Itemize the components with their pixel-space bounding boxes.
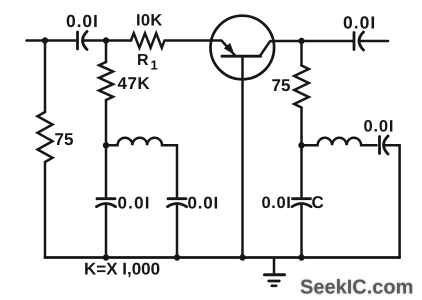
inductor L1 — [106, 138, 177, 146]
wire junction B down — [105, 41, 108, 63]
svg-text:75: 75 — [272, 76, 291, 95]
capacitor C5 — [380, 136, 389, 154]
node G bottom junction — [174, 254, 180, 260]
svg-text:0.0I: 0.0I — [66, 11, 99, 31]
svg-text:0.0I: 0.0I — [262, 194, 292, 212]
svg-text:0.0I: 0.0I — [188, 194, 220, 213]
inductor L2 — [302, 138, 377, 145]
node C junction — [103, 142, 109, 148]
wire junction A down — [44, 41, 47, 113]
resistor 75 (right) — [294, 66, 309, 108]
wire R1 to transistor — [165, 39, 212, 42]
svg-text:SeekIC.com: SeekIC.com — [300, 277, 413, 299]
node F bottom junction — [103, 254, 109, 260]
node H bottom junction — [239, 254, 245, 260]
wire left resistor to bottom bus — [44, 162, 47, 258]
svg-text:0.0I: 0.0I — [364, 118, 395, 136]
capacitor C2 shunt — [97, 199, 116, 207]
node I bottom junction — [298, 254, 304, 260]
wire C6 to bottom bus — [300, 204, 303, 258]
wire input rail left — [27, 39, 78, 42]
svg-text:0.0I: 0.0I — [118, 194, 151, 213]
svg-text:1: 1 — [151, 58, 158, 73]
wire collector rail — [273, 40, 354, 43]
transistor Q1 — [211, 16, 275, 258]
resistor 47K — [99, 62, 113, 100]
ground — [265, 258, 285, 286]
node A input junction — [42, 37, 48, 43]
wire L1 down — [176, 145, 179, 196]
node D collector junction — [298, 38, 304, 44]
wire 47K to node C — [105, 100, 108, 197]
capacitor C6 shunt — [292, 199, 311, 207]
svg-text:47K: 47K — [118, 74, 151, 93]
capacitor C1 — [78, 32, 88, 50]
capacitor C4 — [354, 32, 364, 50]
wire C1 to R1 — [83, 39, 131, 42]
wire output terminal — [360, 40, 389, 43]
svg-text:75: 75 — [55, 130, 74, 149]
wire node D down — [300, 41, 303, 66]
node B top junction — [103, 37, 109, 43]
wire C3 to bottom bus — [176, 204, 179, 258]
wire bottom bus — [45, 256, 400, 259]
svg-text:K=X I,000: K=X I,000 — [84, 260, 160, 279]
wire right resistor to node E — [300, 108, 303, 197]
svg-text:R: R — [137, 52, 149, 69]
svg-text:0.0I: 0.0I — [343, 13, 376, 33]
wire C5 to right corner down — [384, 145, 400, 257]
svg-text:C: C — [312, 193, 324, 212]
node E junction — [298, 142, 304, 148]
resistor 75 (left) — [38, 112, 53, 162]
capacitor C3 shunt — [168, 199, 187, 207]
wire C2 to bottom bus — [105, 204, 108, 258]
resistor R1 10K — [131, 33, 165, 48]
svg-text:I0K: I0K — [136, 12, 163, 30]
